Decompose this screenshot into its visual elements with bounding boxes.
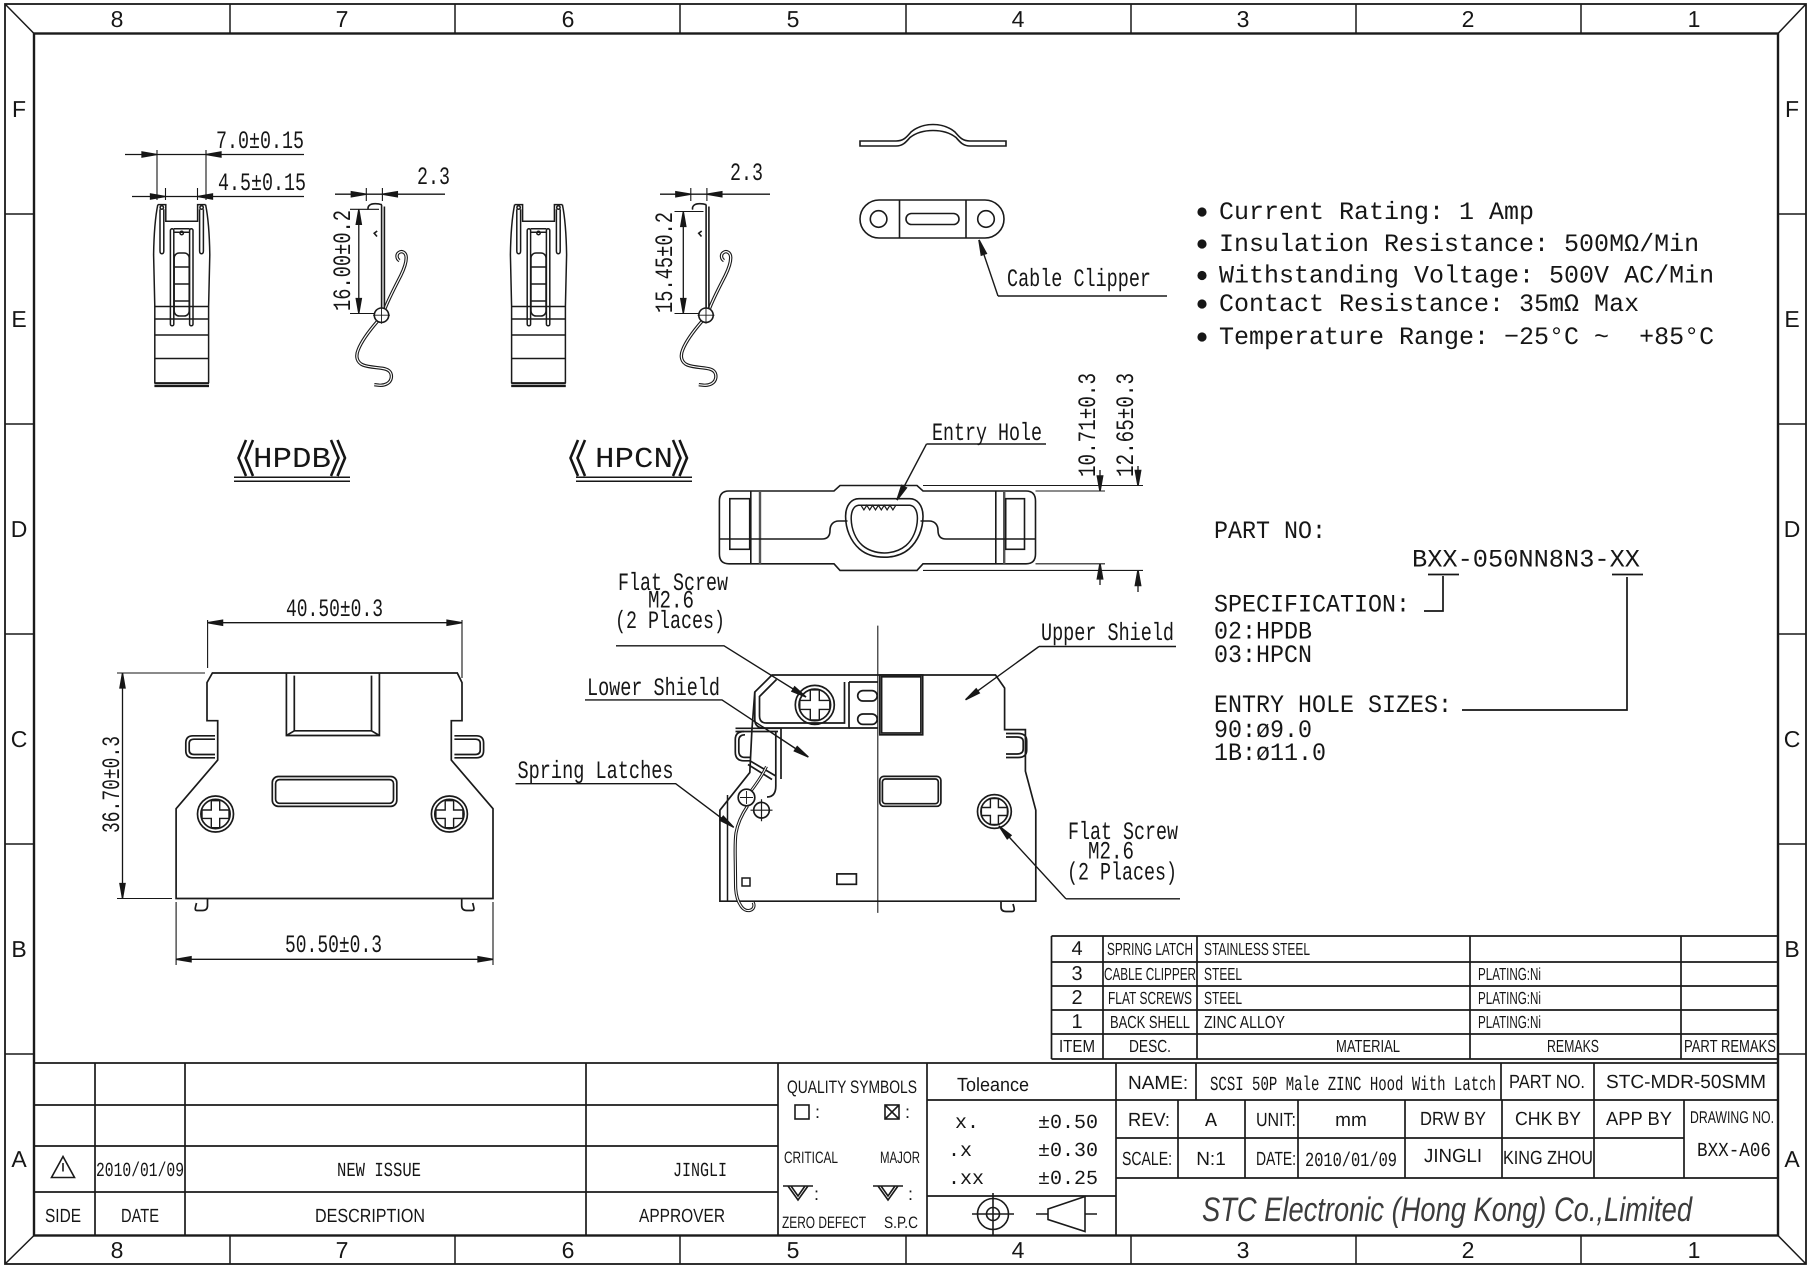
svg-text:Insulation Resistance: 500MΩ/M: Insulation Resistance: 500MΩ/Min xyxy=(1219,230,1699,259)
svg-text:Contact Resistance: 35mΩ Max: Contact Resistance: 35mΩ Max xyxy=(1219,290,1639,319)
svg-text:(2 Places): (2 Places) xyxy=(1067,859,1177,888)
svg-text:Upper Shield: Upper Shield xyxy=(1041,619,1174,648)
svg-text:36.70±0.3: 36.70±0.3 xyxy=(98,736,127,833)
svg-text:3: 3 xyxy=(1237,6,1250,32)
svg-text:SPRING LATCH: SPRING LATCH xyxy=(1107,939,1193,959)
svg-text:SIDE: SIDE xyxy=(45,1206,81,1227)
svg-text:40.50±0.3: 40.50±0.3 xyxy=(286,595,383,624)
svg-text:NEW ISSUE: NEW ISSUE xyxy=(337,1160,421,1183)
svg-text:STAINLESS STEEL: STAINLESS STEEL xyxy=(1204,939,1310,959)
svg-text:15.45±0.2: 15.45±0.2 xyxy=(651,212,680,313)
svg-text:PART NO:: PART NO: xyxy=(1214,517,1326,546)
svg-text:BACK SHELL: BACK SHELL xyxy=(1110,1012,1190,1032)
svg-text:APPROVER: APPROVER xyxy=(639,1206,725,1227)
svg-text:x.: x. xyxy=(955,1112,979,1135)
svg-text:MATERIAL: MATERIAL xyxy=(1336,1036,1400,1056)
svg-text:F: F xyxy=(1785,96,1799,122)
svg-text:DATE:: DATE: xyxy=(1256,1149,1296,1170)
svg-text:5: 5 xyxy=(787,1237,800,1263)
svg-text:03:HPCN: 03:HPCN xyxy=(1214,641,1312,670)
svg-text:Temperature Range: −25°C ~ +8: Temperature Range: −25°C ~ +85°C xyxy=(1219,323,1714,352)
svg-text:(2 Places): (2 Places) xyxy=(615,607,725,636)
svg-text:4.5±0.15: 4.5±0.15 xyxy=(218,169,306,198)
svg-text:7: 7 xyxy=(336,6,349,32)
svg-text:A: A xyxy=(1205,1110,1217,1133)
svg-text:2.3: 2.3 xyxy=(417,163,450,192)
svg-text:B: B xyxy=(11,936,26,962)
svg-text:N:1: N:1 xyxy=(1196,1149,1226,1170)
svg-text:2: 2 xyxy=(1462,6,1475,32)
svg-text:5: 5 xyxy=(787,6,800,32)
svg-text:8: 8 xyxy=(111,1237,124,1263)
svg-text:D: D xyxy=(11,516,28,542)
svg-text:PART NO.: PART NO. xyxy=(1509,1072,1585,1093)
svg-text:2: 2 xyxy=(1071,987,1082,1009)
svg-text:KING ZHOU: KING ZHOU xyxy=(1503,1148,1593,1169)
svg-text:50.50±0.3: 50.50±0.3 xyxy=(285,931,382,960)
svg-text:SPECIFICATION:: SPECIFICATION: xyxy=(1214,591,1410,620)
svg-text:4: 4 xyxy=(1071,938,1082,960)
svg-text::: : xyxy=(814,1184,819,1204)
svg-text:FLAT SCREWS: FLAT SCREWS xyxy=(1108,988,1192,1008)
svg-text:6: 6 xyxy=(562,1237,575,1263)
svg-text:Entry Hole: Entry Hole xyxy=(932,419,1042,448)
svg-text:.x: .x xyxy=(948,1140,972,1163)
svg-text:E: E xyxy=(1784,306,1799,332)
svg-text:QUALITY SYMBOLS: QUALITY SYMBOLS xyxy=(787,1077,917,1097)
svg-text:C: C xyxy=(11,726,28,752)
svg-text:SCSI 50P Male ZINC Hood With L: SCSI 50P Male ZINC Hood With Latch xyxy=(1210,1074,1496,1097)
svg-text:UNIT:: UNIT: xyxy=(1256,1110,1296,1131)
svg-text:.xx: .xx xyxy=(948,1168,984,1191)
svg-text:ZERO DEFECT: ZERO DEFECT xyxy=(782,1214,866,1232)
svg-text:S.P.C: S.P.C xyxy=(884,1214,918,1232)
svg-text:DATE: DATE xyxy=(121,1206,159,1227)
svg-text:CRITICAL: CRITICAL xyxy=(784,1149,838,1167)
svg-text:PART REMAKS: PART REMAKS xyxy=(1684,1036,1776,1056)
svg-text::: : xyxy=(905,1102,910,1122)
svg-text::: : xyxy=(815,1102,820,1122)
svg-text:DESCRIPTION: DESCRIPTION xyxy=(315,1206,425,1227)
svg-text:SCALE:: SCALE: xyxy=(1122,1149,1172,1170)
svg-text:DRW BY: DRW BY xyxy=(1420,1109,1486,1130)
svg-text:10.71±0.3: 10.71±0.3 xyxy=(1074,373,1103,477)
svg-text:6: 6 xyxy=(562,6,575,32)
svg-text:1: 1 xyxy=(1688,1237,1701,1263)
svg-text:3: 3 xyxy=(1237,1237,1250,1263)
svg-text:Cable Clipper: Cable Clipper xyxy=(1007,265,1151,294)
svg-text:ZINC ALLOY: ZINC ALLOY xyxy=(1204,1012,1285,1032)
svg-text:A: A xyxy=(1784,1146,1800,1172)
svg-text:Toleance: Toleance xyxy=(957,1075,1029,1096)
svg-text:Withstanding Voltage: 500V AC/: Withstanding Voltage: 500V AC/Min xyxy=(1219,262,1714,291)
svg-text:REV:: REV: xyxy=(1128,1110,1170,1131)
svg-text:F: F xyxy=(12,96,26,122)
svg-text:STEEL: STEEL xyxy=(1204,964,1242,984)
svg-text:±0.25: ±0.25 xyxy=(1038,1168,1098,1191)
svg-text:7: 7 xyxy=(336,1237,349,1263)
svg-text:STC-MDR-50SMM: STC-MDR-50SMM xyxy=(1606,1072,1766,1093)
svg-text:16.00±0.2: 16.00±0.2 xyxy=(329,210,358,311)
svg-text:BXX-050NN8N3-XX: BXX-050NN8N3-XX xyxy=(1412,546,1640,575)
svg-text::: : xyxy=(908,1184,913,1204)
svg-text:CHK BY: CHK BY xyxy=(1515,1109,1581,1130)
svg-text:2010/01/09: 2010/01/09 xyxy=(1305,1150,1397,1173)
svg-text:PLATING:Ni: PLATING:Ni xyxy=(1478,1012,1541,1032)
svg-text:JINGLI: JINGLI xyxy=(1424,1146,1482,1167)
svg-text:PLATING:Ni: PLATING:Ni xyxy=(1478,988,1541,1008)
svg-text:ITEM: ITEM xyxy=(1059,1036,1095,1056)
svg-text:C: C xyxy=(1784,726,1801,752)
svg-text:HPCN: HPCN xyxy=(595,443,673,476)
svg-text:DRAWING NO.: DRAWING NO. xyxy=(1690,1108,1774,1127)
svg-text:1: 1 xyxy=(1688,6,1701,32)
svg-text:PLATING:Ni: PLATING:Ni xyxy=(1478,964,1541,984)
svg-text:2010/01/09: 2010/01/09 xyxy=(96,1160,184,1183)
svg-text:12.65±0.3: 12.65±0.3 xyxy=(1112,373,1141,477)
svg-text:Spring Latches: Spring Latches xyxy=(518,757,674,786)
svg-text:D: D xyxy=(1784,516,1801,542)
svg-text:Current Rating: 1 Amp: Current Rating: 1 Amp xyxy=(1219,198,1534,227)
svg-text:STEEL: STEEL xyxy=(1204,988,1242,1008)
svg-text:MAJOR: MAJOR xyxy=(880,1149,920,1167)
svg-text:B: B xyxy=(1784,936,1799,962)
svg-text:REMAKS: REMAKS xyxy=(1547,1036,1599,1056)
svg-text:7.0±0.15: 7.0±0.15 xyxy=(216,127,304,156)
svg-text:CABLE CLIPPER: CABLE CLIPPER xyxy=(1104,964,1196,984)
svg-text:1: 1 xyxy=(1071,1011,1082,1033)
svg-text:E: E xyxy=(11,306,26,332)
svg-text:1B:ø11.0: 1B:ø11.0 xyxy=(1214,739,1326,768)
svg-text:4: 4 xyxy=(1012,1237,1025,1263)
svg-text:mm: mm xyxy=(1335,1110,1367,1131)
svg-text:JINGLI: JINGLI xyxy=(673,1160,727,1183)
svg-text:DESC.: DESC. xyxy=(1129,1036,1171,1056)
svg-text:HPDB: HPDB xyxy=(253,443,331,476)
svg-text:BXX-A06: BXX-A06 xyxy=(1697,1140,1771,1163)
svg-text:APP BY: APP BY xyxy=(1606,1109,1672,1130)
svg-text:±0.50: ±0.50 xyxy=(1038,1112,1098,1135)
svg-text:2: 2 xyxy=(1462,1237,1475,1263)
svg-text:4: 4 xyxy=(1012,6,1025,32)
svg-text:±0.30: ±0.30 xyxy=(1038,1140,1098,1163)
svg-text:Lower Shield: Lower Shield xyxy=(587,674,720,703)
svg-text:8: 8 xyxy=(111,6,124,32)
svg-text:A: A xyxy=(11,1146,27,1172)
svg-text:2.3: 2.3 xyxy=(730,159,763,188)
svg-text:STC Electronic (Hong Kong) Co.: STC Electronic (Hong Kong) Co.,Limited xyxy=(1202,1191,1693,1229)
svg-text:3: 3 xyxy=(1071,963,1082,985)
svg-text:NAME:: NAME: xyxy=(1128,1073,1188,1094)
